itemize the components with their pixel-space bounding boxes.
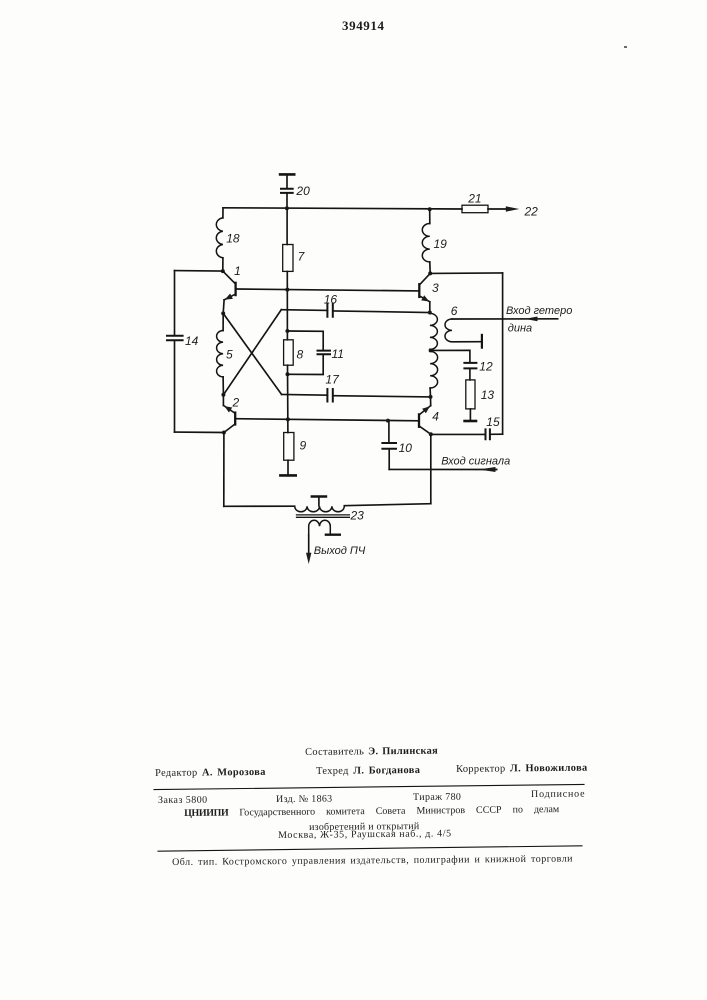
transistor Q4	[419, 397, 439, 434]
heterodyne input line	[452, 318, 558, 320]
cross wire B1 to C17 line	[223, 313, 281, 394]
svg-text:14: 14	[185, 334, 199, 348]
svg-text:Вход гетеро: Вход гетеро	[506, 305, 572, 317]
node base line center	[285, 288, 289, 292]
capacitor C17	[325, 372, 340, 401]
svg-text:7: 7	[298, 249, 306, 263]
node B2 L5 bottom	[221, 393, 225, 397]
right vertical wire	[502, 273, 504, 434]
wire L18 to node A1	[222, 258, 224, 271]
capacitor C12	[464, 360, 493, 374]
ground chassis bar above C20	[280, 173, 294, 176]
svg-text:15: 15	[486, 415, 500, 429]
svg-text:21: 21	[467, 191, 481, 205]
heterodyne arrow	[525, 317, 538, 322]
wire C16 line left	[281, 309, 327, 312]
svg-text:дина: дина	[508, 323, 532, 335]
bottom rail left	[224, 505, 295, 507]
base wire Q1 to Q3	[236, 289, 420, 291]
node base line 2 center	[286, 417, 290, 421]
wire C15 to right vertical	[490, 433, 502, 435]
transistor Q1	[223, 264, 241, 313]
wire rail corner to L18	[222, 208, 224, 218]
terminal plate of L6	[481, 335, 483, 348]
wire T4 emitter down	[430, 434, 432, 504]
svg-text:11: 11	[332, 347, 344, 361]
wire node A1 to left branch	[175, 270, 223, 273]
node collector T4 / coil bottom	[429, 395, 433, 399]
capacitor C10	[382, 441, 412, 455]
wire R21 to output arrow	[488, 208, 507, 210]
base wire Q2 to Q4	[235, 419, 419, 421]
wire tap to C12	[431, 350, 470, 362]
transistor Q3	[419, 273, 439, 312]
resistor R21	[462, 191, 488, 212]
svg-text:5: 5	[226, 348, 233, 362]
node rail/C20/R7	[285, 206, 289, 210]
svg-text:6: 6	[451, 304, 458, 318]
svg-text:4: 4	[432, 409, 439, 423]
transistor Q2	[223, 395, 239, 433]
node A3 collector T3	[428, 271, 432, 275]
wire C17 line left	[282, 394, 328, 397]
svg-text:8: 8	[297, 348, 304, 362]
screen tap of T23	[312, 497, 326, 506]
node R8 top	[285, 329, 289, 333]
left vertical wire lower	[174, 341, 176, 432]
node emitter T4	[429, 432, 433, 436]
wire T4 emitter to C15	[431, 433, 485, 435]
resistor R8	[284, 340, 304, 365]
wire C16 line right	[333, 311, 430, 313]
signal arrow	[479, 467, 496, 472]
node A1 collector T1	[221, 269, 225, 273]
svg-text:23: 23	[350, 508, 365, 522]
wire C20 to top rail	[286, 194, 288, 209]
top supply rail	[223, 208, 462, 209]
svg-text:19: 19	[434, 237, 448, 251]
capacitor C14	[167, 334, 199, 348]
transformer T23 secondary	[309, 520, 331, 534]
transformer T23 primary	[295, 506, 364, 522]
transformer winding lower right	[430, 351, 438, 397]
wire left branch to node B2	[175, 431, 224, 433]
wire B2c down to bottom rail	[223, 433, 225, 507]
patent number heading	[342, 18, 385, 34]
wire R13 to ground	[469, 409, 471, 420]
bottom rail right	[344, 504, 431, 506]
wire rail C20node to R7	[286, 208, 288, 244]
node R8 bottom	[286, 372, 290, 376]
svg-text:20: 20	[295, 184, 310, 198]
resistor R9	[284, 433, 307, 461]
wire R7 to R8	[286, 271, 288, 339]
wire C11 top branch	[287, 331, 323, 350]
inductor L19	[422, 209, 447, 273]
inductor L6	[445, 304, 458, 342]
IF output arrow	[306, 553, 311, 564]
svg-text:13: 13	[481, 388, 495, 402]
heterodyne label	[506, 305, 572, 335]
svg-text:12: 12	[479, 360, 493, 374]
wire ground to C20	[286, 176, 288, 189]
capacitor C16	[324, 293, 338, 317]
svg-text:Вход сигнала: Вход сигнала	[441, 456, 510, 468]
ground below R9	[280, 474, 295, 477]
svg-text:2: 2	[232, 396, 240, 410]
ground at T23 secondary	[326, 534, 340, 536]
svg-text:16: 16	[324, 293, 338, 307]
left vertical wire upper	[174, 271, 176, 336]
core of T23	[297, 515, 350, 517]
inductor L5	[217, 313, 233, 394]
capacitor C20	[281, 184, 310, 198]
output arrow 22	[506, 205, 538, 219]
rule above printer line	[158, 846, 582, 851]
svg-text:9: 9	[300, 439, 307, 453]
rule above imprint	[154, 784, 584, 789]
svg-text:1: 1	[234, 264, 241, 278]
wire node to C10	[388, 421, 390, 442]
inductor L18	[216, 218, 240, 258]
svg-text:18: 18	[226, 232, 240, 246]
capacitor C11	[318, 347, 344, 361]
node B1 emitter T1 / L5 top	[221, 311, 225, 315]
stray mark top right	[624, 46, 627, 48]
svg-text:Выход ПЧ: Выход ПЧ	[314, 545, 366, 557]
wire C17 line right	[333, 396, 431, 397]
signal input line	[389, 468, 497, 470]
ground below R13	[465, 420, 476, 423]
wire R9 to ground	[287, 460, 289, 474]
wire L6 bottom to plate	[452, 341, 481, 343]
capacitor C15	[486, 415, 500, 439]
node emitter T3 / coil top	[428, 311, 432, 315]
IF output wire	[308, 535, 310, 556]
IF output label	[314, 545, 366, 557]
signal label	[441, 456, 510, 468]
cross wire B2 to C16 line	[223, 310, 281, 395]
svg-text:17: 17	[325, 372, 340, 386]
svg-text:10: 10	[399, 441, 413, 455]
resistor R7	[283, 245, 306, 272]
svg-text:22: 22	[524, 205, 539, 219]
wire C11 bottom branch	[288, 355, 324, 375]
node rail/L19	[428, 207, 432, 211]
svg-text:3: 3	[432, 281, 439, 295]
wire C12 to R13	[469, 369, 471, 380]
node coil tap	[429, 348, 433, 352]
node base line cap10	[386, 419, 390, 423]
transformer winding upper right	[430, 313, 438, 349]
resistor R13	[466, 380, 495, 409]
wire C10 to signal line	[388, 450, 390, 470]
node B2c collector T2	[222, 431, 226, 435]
wire R8 to base line 2	[287, 365, 289, 432]
BOTTOM TEXT BLOCK	[305, 746, 438, 758]
wire A3 to right branch	[430, 272, 502, 275]
